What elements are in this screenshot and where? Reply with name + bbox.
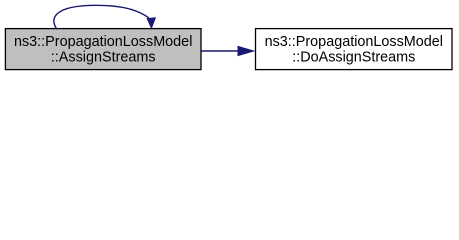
svg-text:::DoAssignStreams: ::DoAssignStreams	[292, 50, 415, 66]
node Node2 ns3::PropagationLossModel::DoAssignStreams (callee, white)	[256, 29, 453, 70]
svg-text:ns3::PropagationLossModel: ns3::PropagationLossModel	[14, 34, 192, 50]
node Node1 ns3::PropagationLossModel::AssignStreams (caller, grey filled)	[5, 29, 201, 70]
self-loop edge on Node1	[54, 5, 156, 29]
edge Node1 to Node2	[202, 46, 256, 56]
svg-text:::AssignStreams: ::AssignStreams	[51, 50, 156, 66]
svg-text:ns3::PropagationLossModel: ns3::PropagationLossModel	[265, 34, 443, 50]
